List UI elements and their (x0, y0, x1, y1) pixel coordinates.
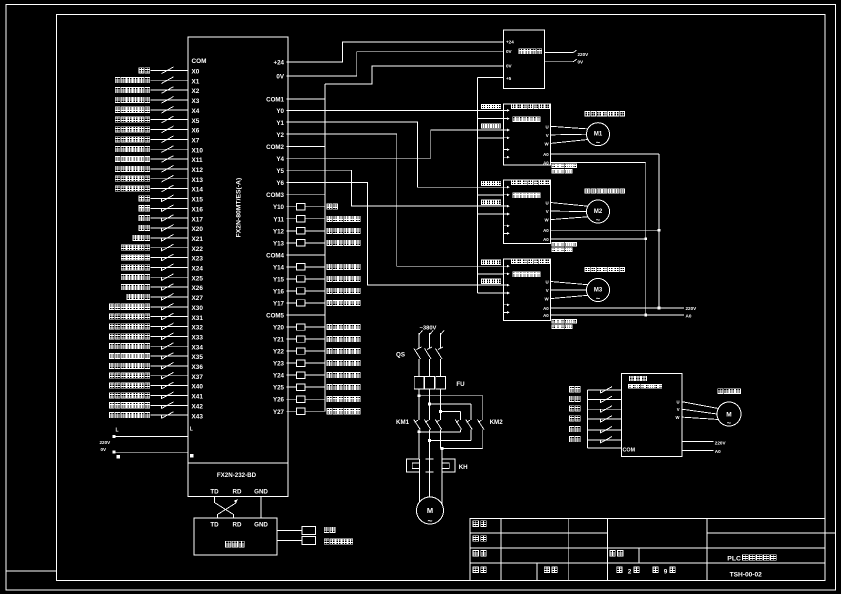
svg-text:M1: M1 (594, 132, 603, 138)
svg-text:~: ~ (596, 138, 601, 147)
phase line 3 (440, 333, 442, 348)
input X3 row (xialiao1 shang) (115, 97, 199, 106)
driver U2 A0 wires to buses (551, 153, 659, 155)
svg-text:A0: A0 (543, 228, 549, 233)
inverter input reset row (569, 416, 621, 423)
input X4 row (xialiao1 xia) (115, 106, 199, 115)
driver U3 title (511, 180, 515, 184)
common 0V bus vertical (324, 84, 326, 411)
svg-text:V: V (546, 288, 549, 293)
input X1 row (xialiao1 qian) (115, 77, 199, 86)
input X17 row (shoudong) (139, 215, 203, 224)
svg-text:X6: X6 (192, 128, 200, 135)
svg-text:~: ~ (596, 294, 601, 303)
svg-text:+24: +24 (506, 40, 514, 45)
svg-text:Y5: Y5 (276, 168, 284, 175)
svg-text:220V: 220V (686, 306, 698, 311)
svg-text:X32: X32 (192, 325, 204, 332)
title row shenhe (473, 550, 478, 556)
inverter VFD box (622, 373, 683, 456)
computer peripheral box 1 (302, 527, 316, 535)
driver U3 input pin arrows (504, 186, 510, 235)
title block vertical lines (500, 519, 502, 581)
input X40 row (danbu3 qianjin) (109, 382, 203, 391)
output coil row Y17 (286, 300, 360, 306)
svg-text:Y16: Y16 (273, 288, 285, 295)
KM2 merge wire c (482, 430, 484, 449)
svg-text:X13: X13 (192, 177, 204, 184)
driver U3 +5 stub wires (478, 194, 504, 196)
svg-text:Y26: Y26 (273, 397, 285, 404)
input X12 row (xialiao3 hou) (115, 166, 203, 175)
wire COM3 to common bus (286, 194, 325, 196)
output coil row Y16 (286, 288, 360, 294)
svg-text:U: U (546, 201, 549, 206)
KM2 merge wire b (470, 430, 472, 441)
svg-text:Y13: Y13 (273, 240, 285, 247)
svg-text:Y11: Y11 (273, 216, 284, 223)
220V L wire to PLC (114, 435, 188, 437)
output coil row Y11 (286, 216, 360, 222)
svg-text:220V: 220V (100, 440, 112, 445)
inverter model text (628, 385, 631, 389)
driver U4 title (511, 259, 515, 263)
title block outline (470, 519, 825, 581)
driver U3 power note text (552, 242, 555, 246)
svg-text:COM5: COM5 (266, 313, 284, 320)
input X14 row (xialiao3 xia) (115, 185, 203, 194)
svg-text:Y14: Y14 (273, 264, 285, 271)
wire Y0 pulse to driver U2 (286, 110, 503, 112)
driver U4 +5 stub wires (478, 273, 504, 275)
PSU output 0V wire (545, 61, 574, 63)
svg-text:0V: 0V (506, 49, 513, 54)
fuse FU three (414, 377, 445, 418)
input X21 row (huiyuandian) (133, 234, 203, 243)
left margin divider line (6, 570, 57, 572)
220V N wire to PLC (114, 451, 188, 453)
wire COM1 to common bus (286, 98, 325, 100)
input X27 row (danbu shangliao) (127, 294, 203, 303)
stepper motor M3 (587, 279, 610, 302)
svg-text:9: 9 (664, 569, 668, 576)
wire common bus to PSU 0V (325, 66, 504, 84)
svg-text:X2: X2 (192, 88, 200, 95)
svg-text:X20: X20 (192, 226, 204, 233)
serial GND wire (260, 496, 262, 518)
svg-text:X33: X33 (192, 334, 204, 341)
svg-text:Y23: Y23 (273, 361, 285, 368)
peripheral 1 label (324, 527, 329, 532)
svg-text:A0: A0 (543, 237, 549, 242)
wire COM5 to common bus (286, 314, 325, 316)
title block horizontal lines (470, 532, 607, 534)
input X0 row (shang liao) (139, 67, 200, 76)
svg-text:W: W (676, 415, 680, 420)
input X26 row (jinkaiguan5) (121, 284, 203, 293)
title row jiaohe (473, 536, 478, 542)
svg-text:Y24: Y24 (273, 373, 285, 380)
inverter input reverse row (569, 396, 621, 403)
svg-text:X26: X26 (192, 285, 204, 292)
svg-text:X16: X16 (192, 206, 204, 213)
input X25 row (jinkaiguan4) (121, 274, 203, 283)
svg-text:U: U (546, 124, 549, 129)
N marker left (117, 455, 121, 459)
stepper driver U4 box (504, 259, 551, 321)
driver U2 model text (513, 117, 516, 122)
driver U2 +5 stub wires (478, 118, 504, 120)
input X32 row (danbu1 shangsheng) (109, 323, 203, 332)
computer peripheral box 2 (302, 537, 316, 545)
computer box (194, 518, 277, 555)
output coil row Y15 (286, 276, 360, 282)
input X33 row (danbu1 xiajiang) (109, 333, 203, 342)
svg-text:A0: A0 (543, 152, 549, 157)
svg-text:X23: X23 (192, 256, 204, 263)
svg-text:COM2: COM2 (266, 144, 284, 151)
svg-text:PLC: PLC (727, 556, 741, 563)
phase line 2 (429, 333, 431, 348)
svg-text:X35: X35 (192, 354, 204, 361)
inverter input speed row (569, 406, 621, 413)
driver U4 pulse signal label (481, 260, 485, 264)
computer peripheral wire 2 (277, 540, 302, 542)
svg-text:X27: X27 (192, 295, 204, 302)
wire Y6 direction to driver U4 (286, 182, 503, 285)
input X42 row (danbu3 shangsheng) (109, 402, 203, 411)
branch wire phase1 to KM2 (419, 395, 483, 397)
input X16 row (tingzhi) (139, 205, 203, 214)
title xuehao label (544, 567, 549, 573)
stepper driver U3 box (504, 180, 551, 243)
serial TD-RD cross wire b with arrow (218, 503, 236, 518)
wire 0V PLC to PSU (286, 52, 503, 76)
svg-text:Y12: Y12 (273, 228, 285, 235)
driver U3 direction signal label (481, 200, 485, 204)
svg-text:FX2N-80MT/ES(-A): FX2N-80MT/ES(-A) (236, 178, 243, 238)
output coil row Y14 (286, 264, 360, 270)
svg-text:X0: X0 (192, 69, 200, 76)
svg-text:Y20: Y20 (273, 325, 285, 332)
svg-text:M2: M2 (594, 209, 603, 215)
svg-text:M: M (726, 412, 731, 419)
svg-text:Y2: Y2 (276, 132, 284, 139)
output coil row Y21 (286, 336, 360, 342)
svg-text:X43: X43 (192, 413, 204, 420)
output coil row Y26 (286, 396, 360, 402)
svg-text:Y27: Y27 (273, 409, 285, 416)
svg-text:X15: X15 (192, 197, 204, 204)
PLC N pin marker (190, 454, 194, 458)
svg-text:~: ~ (727, 419, 732, 428)
svg-text:X3: X3 (192, 98, 200, 105)
input X13 row (xialiao3 shang) (115, 175, 203, 184)
svg-text:U: U (676, 400, 679, 405)
wires KH to main motor (418, 472, 420, 502)
inverter motor M (717, 402, 741, 426)
svg-text:X41: X41 (192, 394, 204, 401)
input X37 row (danbu2 xiajiang) (109, 372, 203, 381)
stepper motor M1 (587, 123, 610, 146)
breaker QS three poles (414, 347, 443, 377)
output coil row Y13 (286, 240, 360, 246)
input X6 row (xialiao2 hou) (115, 126, 199, 135)
svg-text:A0: A0 (543, 160, 549, 165)
wires U V W to motor M (682, 402, 718, 409)
driver U4 input pin arrows (504, 265, 510, 314)
svg-text:220V: 220V (715, 440, 727, 445)
svg-text:X11: X11 (192, 157, 203, 164)
driver U2 direction signal label (481, 124, 485, 128)
svg-text:X1: X1 (192, 78, 200, 85)
svg-text:Y6: Y6 (276, 180, 284, 187)
wire COM4 to common bus (286, 254, 325, 256)
svg-text:X31: X31 (192, 315, 204, 322)
svg-text:KH: KH (459, 464, 468, 471)
svg-text:Y22: Y22 (273, 349, 285, 356)
title row banji (473, 567, 478, 573)
wire Y4 direction to driver U2 (286, 130, 503, 158)
svg-text:X21: X21 (192, 236, 204, 243)
A0 bus vertical 1 (645, 162, 647, 315)
main motor M circle (417, 497, 444, 524)
inverter input stop row (569, 437, 621, 444)
svg-text:X5: X5 (192, 118, 200, 125)
svg-text:TD: TD (210, 489, 219, 496)
driver U2 pulse signal label (481, 104, 485, 108)
svg-text:L: L (116, 428, 119, 434)
svg-text:M3: M3 (594, 288, 603, 294)
inverter input common bus (587, 390, 589, 448)
svg-text:RD: RD (233, 489, 242, 496)
svg-text:X17: X17 (192, 216, 204, 223)
svg-text:A0: A0 (686, 314, 692, 319)
output coil row Y25 (286, 384, 360, 390)
svg-text:RD: RD (233, 522, 242, 529)
inverter motor label text (718, 389, 723, 394)
svg-text:FU: FU (456, 381, 465, 388)
svg-text:V: V (677, 407, 680, 412)
input X30 row (danbu1 qianjin) (109, 303, 203, 312)
PSU title text (519, 49, 524, 54)
driver U3 A0 wires to buses (551, 229, 659, 231)
svg-text:Y0: Y0 (276, 108, 284, 115)
svg-text:COM1: COM1 (266, 96, 284, 103)
wires U V W to motor M3 (551, 282, 588, 285)
phase line 1 (418, 333, 420, 348)
output coil row Y12 (286, 228, 360, 234)
svg-text:+24: +24 (274, 59, 285, 66)
wires U V W to motor M2 (551, 203, 588, 207)
svg-text:COM: COM (623, 447, 636, 453)
svg-text:~: ~ (428, 516, 433, 526)
svg-text:A0: A0 (715, 449, 721, 454)
thermal relay KH symbol (406, 459, 455, 472)
inverter input forward row (569, 387, 621, 394)
svg-text:X7: X7 (192, 137, 200, 144)
svg-text:GND: GND (254, 489, 268, 496)
svg-text:FX2N-232-BD: FX2N-232-BD (217, 472, 257, 479)
svg-text:0V: 0V (506, 64, 513, 69)
wire Y1 pulse to driver U3 (286, 122, 503, 187)
input X23 row (jinkaiguan2) (121, 254, 203, 263)
computer peripheral wire 1 (277, 530, 302, 532)
svg-text:X42: X42 (192, 403, 204, 410)
input X7 row (xialiao2 shang) (115, 136, 199, 145)
svg-text:Y4: Y4 (276, 156, 284, 163)
svg-text:X10: X10 (192, 147, 204, 154)
PSU output 220V wire (545, 52, 574, 54)
svg-text:X37: X37 (192, 374, 204, 381)
input X2 row (xialiao1 hou) (115, 87, 199, 96)
svg-text:220V: 220V (578, 52, 590, 57)
input X41 row (danbu3 houtui) (109, 392, 203, 401)
contactor KM2 three poles (455, 417, 484, 429)
svg-text:M: M (427, 506, 433, 515)
input X22 row (jinkaiguan1) (121, 244, 203, 253)
svg-text:X36: X36 (192, 364, 204, 371)
input X34 row (danbu2 qianjin) (109, 343, 203, 352)
svg-text:A0: A0 (543, 306, 549, 311)
svg-text:0V: 0V (101, 447, 108, 452)
svg-text:TD: TD (210, 522, 219, 529)
driver U4 A0 wires to 220V A0 labels (551, 307, 684, 309)
input X10 row (xialiao2 xia) (115, 146, 203, 155)
driver U4 model text (513, 272, 516, 277)
peripheral 2 label (324, 539, 329, 544)
svg-text:Y15: Y15 (273, 276, 285, 283)
motor M3 label text (585, 267, 590, 271)
svg-text:U: U (546, 280, 549, 285)
svg-text:X25: X25 (192, 275, 204, 282)
PLC U1 FX2N-80MR main box (188, 37, 288, 463)
switching power supply PSU box (504, 30, 545, 88)
driver U2 power note text (552, 164, 555, 168)
inverter 220V input wire (682, 441, 714, 443)
output coil row Y10 (286, 204, 337, 210)
output coil row Y27 (286, 408, 360, 414)
inverter A0 input wire (682, 449, 714, 451)
wire Y5 direction to driver U3 (286, 170, 503, 206)
stepper driver U2 box (504, 104, 551, 165)
wire Y2 pulse to driver U4 (286, 134, 503, 266)
inverter input start row (569, 427, 621, 434)
svg-text:+5: +5 (506, 76, 512, 81)
svg-text:KM1: KM1 (396, 419, 410, 426)
branch wire phase3 to KM2 (441, 411, 461, 413)
svg-text:GND: GND (254, 522, 268, 529)
inverter title text (630, 376, 635, 381)
svg-text:Y25: Y25 (273, 385, 285, 392)
contactor KM1 three poles (414, 417, 442, 429)
driver U2 input pin arrows (504, 109, 510, 159)
svg-text:Y1: Y1 (276, 120, 284, 127)
wires U V W to motor M1 (551, 126, 588, 129)
input X11 row (xialiao3 qian) (115, 156, 203, 165)
svg-text:0V: 0V (276, 74, 284, 81)
input X43 row (danbu3 xiajiang) (109, 412, 203, 421)
driver U4 direction signal label (481, 279, 485, 283)
A0 bus vertical 2 (658, 154, 660, 308)
input X35 row (danbu2 houtui) (109, 353, 203, 362)
motor M2 label text (585, 189, 590, 193)
input X36 row (danbu2 shangsheng) (109, 363, 203, 372)
wire +24V PLC to PSU (286, 42, 503, 62)
computer name text (226, 541, 231, 547)
svg-text:V: V (546, 209, 549, 214)
svg-text:L: L (190, 426, 193, 432)
svg-text:COM: COM (192, 58, 207, 65)
svg-text:X14: X14 (192, 187, 204, 194)
svg-text:X40: X40 (192, 384, 204, 391)
+5V distribution bus (477, 78, 479, 294)
svg-text:0V: 0V (578, 59, 585, 64)
driver U4 power note text (552, 319, 555, 323)
svg-text:2: 2 (628, 569, 632, 576)
input X15 row (qidong) (139, 195, 203, 204)
input X20 row (youbeng) (139, 225, 203, 234)
output coil row Y20 (286, 324, 360, 330)
svg-text:TSH-00-02: TSH-00-02 (730, 571, 763, 578)
output coil row Y22 (286, 348, 360, 354)
svg-text:Y10: Y10 (273, 204, 285, 211)
phase lines KM1 to KH (418, 430, 420, 460)
svg-text:V: V (546, 133, 549, 138)
input X31 row (danbu1 houtui) (109, 313, 203, 322)
svg-text:X22: X22 (192, 246, 204, 253)
svg-text:~: ~ (596, 216, 601, 225)
svg-text:X34: X34 (192, 344, 204, 351)
output coil row Y23 (286, 360, 360, 366)
driver U3 model text (513, 193, 516, 198)
driver U2 title (511, 104, 515, 108)
branch wire phase2 to KM2 (430, 403, 471, 405)
PLC FX2N-232-BD sub box (188, 463, 288, 496)
svg-text:KM2: KM2 (490, 419, 504, 426)
motor M1 label text (585, 112, 590, 116)
output coil row Y24 (286, 372, 360, 378)
driver U3 pulse signal label (481, 181, 485, 185)
svg-text:Y17: Y17 (273, 300, 285, 307)
svg-text:COM3: COM3 (266, 192, 284, 199)
input X5 row (xialiao2 qian) (115, 116, 199, 125)
KM2 merge wire a (459, 430, 461, 432)
svg-text:X12: X12 (192, 167, 204, 174)
svg-text:A0: A0 (543, 313, 549, 318)
title sheet number text (617, 567, 622, 573)
stepper motor M2 (587, 200, 610, 223)
wire COM2 to common bus (286, 146, 325, 148)
svg-text:X24: X24 (192, 266, 204, 273)
svg-text:X30: X30 (192, 305, 204, 312)
svg-text:X4: X4 (192, 108, 200, 115)
title bili label (610, 550, 615, 556)
serial TD-RD cross wire a (215, 496, 234, 518)
input X24 row (jinkaiguan3) (121, 264, 203, 273)
title row sheji (473, 521, 478, 527)
svg-text:COM4: COM4 (266, 252, 284, 259)
svg-text:QS: QS (396, 352, 405, 359)
svg-text:Y21: Y21 (273, 337, 285, 344)
